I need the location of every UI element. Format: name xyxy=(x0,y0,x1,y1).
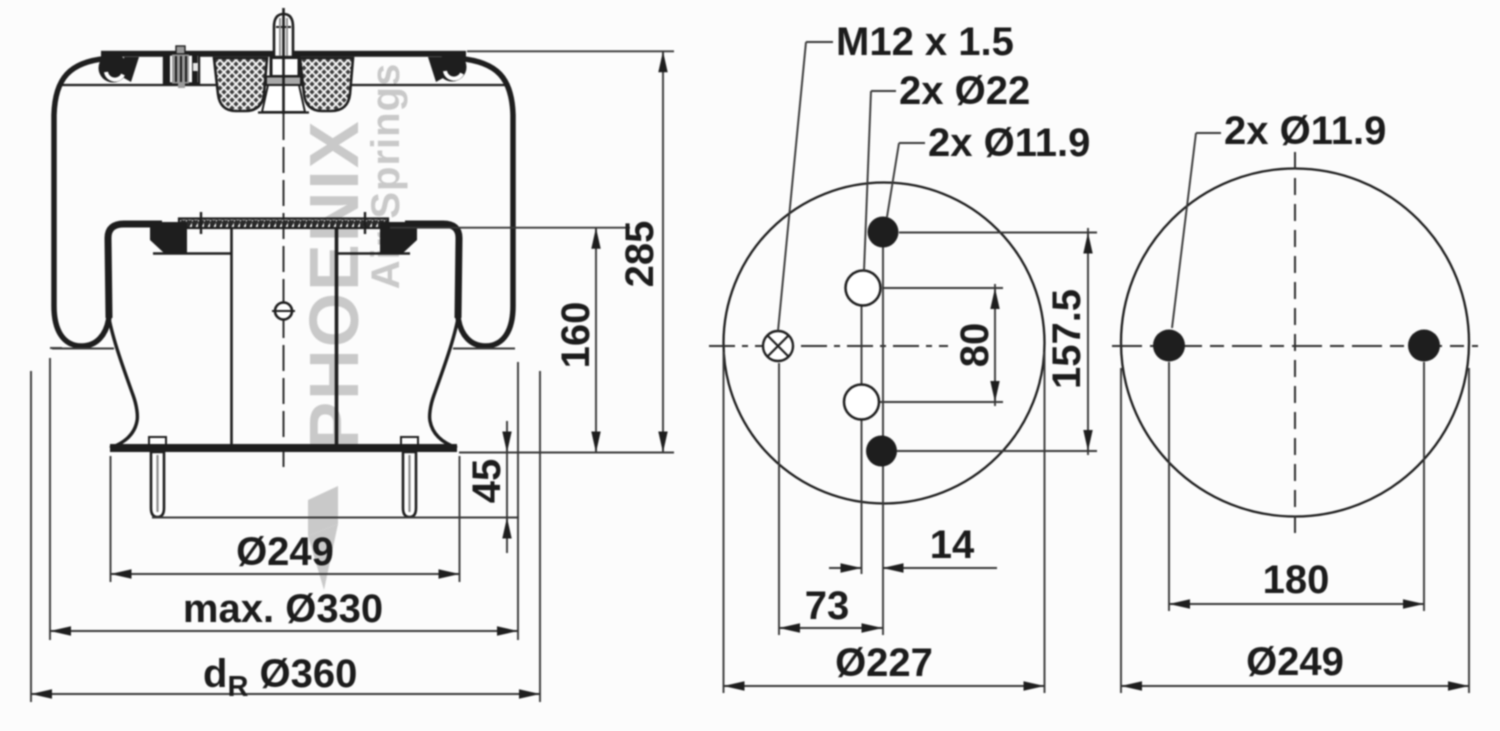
dim 157.5 xyxy=(1087,228,1089,455)
rubber bumper left (hatched) xyxy=(214,58,267,111)
top bead plate bar xyxy=(101,51,466,57)
hole 11.9 bottom (filled) xyxy=(866,436,897,467)
bumper pedestal xyxy=(262,85,305,112)
plate underside right wedge xyxy=(428,57,443,82)
bellows outer left wall with bottom lobe xyxy=(54,59,109,347)
bellows inner wall right hook xyxy=(405,224,459,318)
hole 11.9 right (filled) xyxy=(1408,330,1440,362)
dim 73 xyxy=(778,363,780,635)
centre axis line xyxy=(282,8,285,114)
hole 22 bottom (open) xyxy=(844,385,879,420)
piston shoulder dark corner left xyxy=(150,222,187,253)
label 2x 22 xyxy=(871,90,896,92)
stud tip extension line xyxy=(152,517,519,519)
dim 249 (bottom view) xyxy=(1121,685,1469,687)
lobe tangent line right xyxy=(453,348,515,350)
lobe tangent line left xyxy=(52,348,114,350)
bellows inner wall left hook xyxy=(108,224,162,318)
dim 227 xyxy=(724,685,1045,687)
dim 14 xyxy=(829,567,862,569)
dim 360 extensions xyxy=(30,371,32,702)
watermark PHOENIX logo text xyxy=(295,63,408,590)
hole 11.9 left (filled) xyxy=(1153,330,1185,362)
piston rib left xyxy=(230,228,233,444)
dim 80 extensions xyxy=(882,287,1003,289)
dim 180 xyxy=(1169,603,1424,605)
svg-text:180: 180 xyxy=(1263,558,1330,602)
svg-text:73: 73 xyxy=(805,584,850,628)
dim 330 extensions xyxy=(50,347,62,349)
hole 11.9 top (filled) xyxy=(868,217,899,248)
top plate right rolled edge xyxy=(438,53,467,82)
centre mark circle xyxy=(275,303,292,320)
piston top plate xyxy=(179,219,388,229)
dim 45 xyxy=(506,421,508,553)
bellows outer right wall with bottom lobe xyxy=(458,59,513,347)
svg-text:80: 80 xyxy=(953,323,997,368)
air inlet M12 (crossed circle) xyxy=(763,331,793,361)
plate underside left wedge xyxy=(124,57,139,82)
bottom stud right xyxy=(401,437,418,445)
piston rib right xyxy=(335,228,339,444)
dim 160 xyxy=(595,228,597,453)
dim 330 line xyxy=(50,630,518,632)
svg-text:Ø249: Ø249 xyxy=(1246,640,1344,684)
hole 22 top (open) xyxy=(846,271,881,306)
piston shoulder line right xyxy=(336,252,410,255)
label 2x 11.9 (bottom view) xyxy=(1196,132,1221,134)
svg-text:max. Ø330: max. Ø330 xyxy=(183,587,383,631)
piston shoulder dark corner right xyxy=(380,222,417,253)
dim 285 extension top xyxy=(467,50,674,52)
label M12 x 1.5 xyxy=(806,41,833,43)
dim baseline extension at plate bottom xyxy=(459,452,674,454)
svg-text:Air Springs: Air Springs xyxy=(364,63,408,290)
piston shoulder line left xyxy=(153,252,231,255)
dim 227 extensions xyxy=(723,352,725,693)
top stud xyxy=(274,14,293,57)
stud collar xyxy=(266,77,301,86)
top view circle xyxy=(724,183,1045,504)
centreline horizontal xyxy=(1112,345,1478,347)
centreline horizontal xyxy=(709,345,948,347)
svg-text:14: 14 xyxy=(930,523,975,567)
dim 157.5 extensions xyxy=(899,232,1097,234)
bottom view circle xyxy=(1121,169,1469,517)
svg-text:2x Ø22: 2x Ø22 xyxy=(899,69,1030,113)
svg-text:M12 x 1.5: M12 x 1.5 xyxy=(836,20,1014,64)
dim 80 xyxy=(994,284,996,406)
construction line through 22 holes xyxy=(861,288,863,574)
rubber bumper right (hatched) xyxy=(300,58,353,111)
stud nut block xyxy=(271,58,299,77)
dim 360 line xyxy=(31,693,540,695)
dim 160 extension xyxy=(390,227,630,229)
svg-text:PHOENIX: PHOENIX xyxy=(295,119,373,448)
svg-text:Ø249: Ø249 xyxy=(236,530,334,574)
svg-text:160: 160 xyxy=(554,302,598,369)
piston right wall xyxy=(430,318,458,448)
bottom stud left xyxy=(149,437,166,445)
air fitting xyxy=(176,46,185,54)
svg-text:dR Ø360: dR Ø360 xyxy=(203,652,357,703)
dim 249 extensions (bottom view) xyxy=(1120,368,1122,693)
dim 180 extensions xyxy=(1168,362,1170,611)
svg-text:157.5: 157.5 xyxy=(1045,289,1089,389)
bellows inner top line xyxy=(60,84,508,86)
construction line through 11.9 holes xyxy=(882,232,884,635)
svg-text:285: 285 xyxy=(618,221,662,288)
svg-text:2x Ø11.9: 2x Ø11.9 xyxy=(928,121,1090,165)
svg-text:Ø227: Ø227 xyxy=(835,641,933,685)
dim 285 xyxy=(662,51,664,452)
dim 249 line xyxy=(111,573,460,575)
piston left wall xyxy=(109,318,137,448)
bottom plate xyxy=(110,444,457,452)
top plate left rolled edge xyxy=(99,54,128,83)
label 2x 11.9 (top view) xyxy=(899,142,925,144)
svg-text:45: 45 xyxy=(465,459,509,504)
svg-text:2x Ø11.9: 2x Ø11.9 xyxy=(1224,109,1386,153)
centreline vertical xyxy=(1294,152,1296,540)
dim 249 extensions xyxy=(110,456,112,582)
